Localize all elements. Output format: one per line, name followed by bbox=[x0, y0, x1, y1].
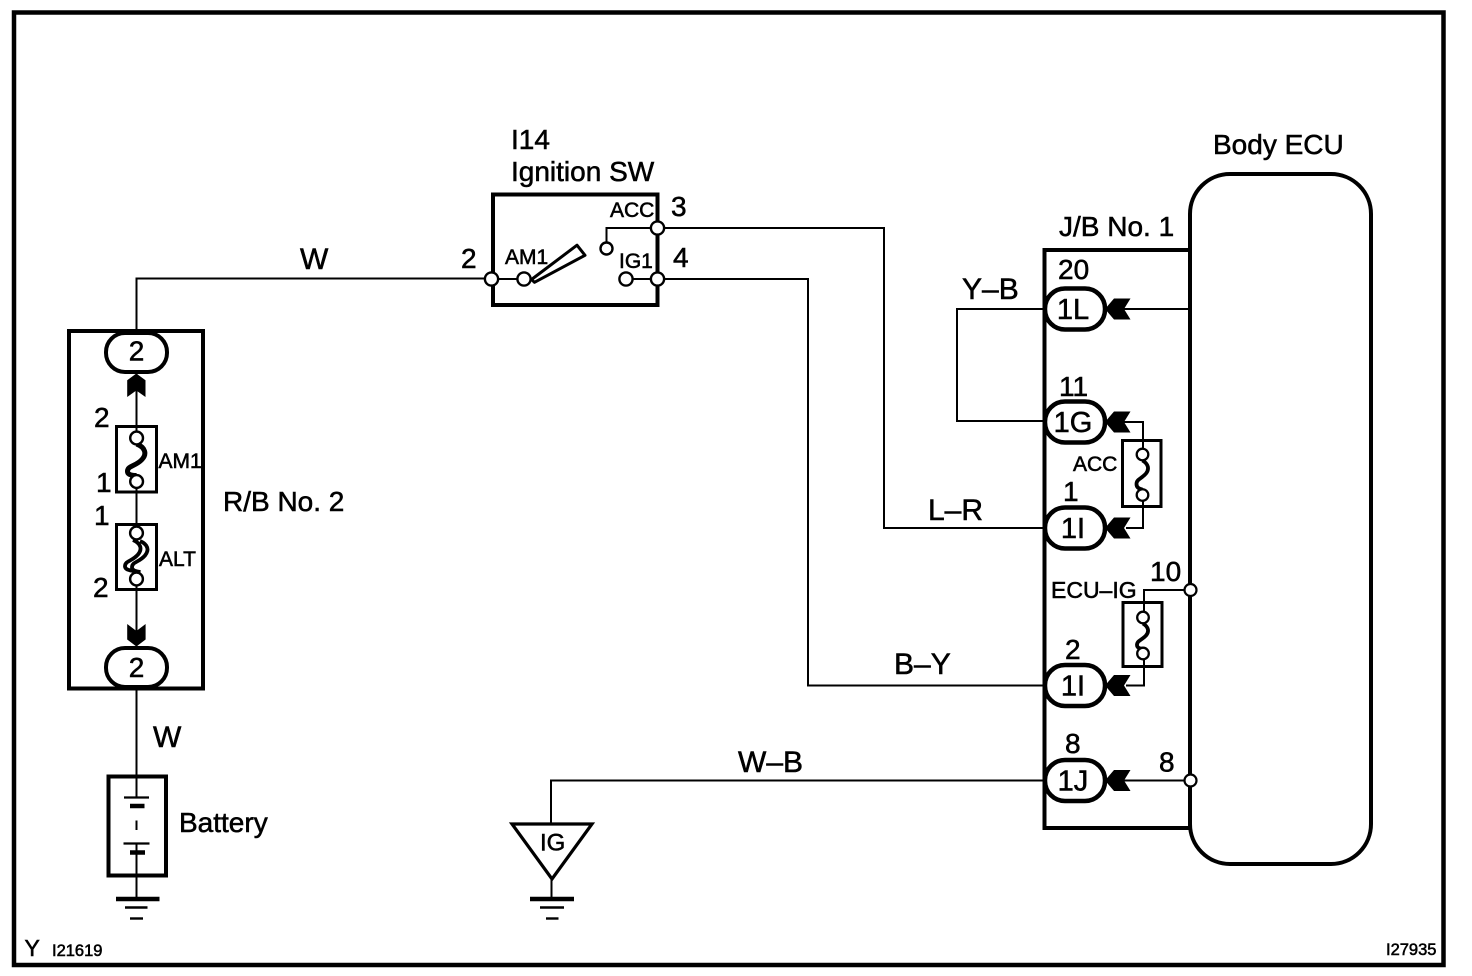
connector 1J bbox=[1045, 760, 1105, 801]
svg-text:3: 3 bbox=[671, 191, 687, 222]
contact AM1 circle bbox=[517, 272, 530, 285]
arrow (1I upper) bbox=[1105, 518, 1131, 539]
svg-text:I27935: I27935 bbox=[1386, 941, 1436, 959]
wire AM1 to IG1 contacts bbox=[492, 278, 658, 280]
connector oval 2 (RB top) bbox=[106, 333, 167, 372]
svg-text:IG1: IG1 bbox=[619, 250, 653, 273]
svg-text:Body ECU: Body ECU bbox=[1213, 129, 1344, 160]
svg-text:2: 2 bbox=[129, 652, 145, 683]
ground IG (triangle) bbox=[512, 824, 592, 919]
switch SW1 box (I14 Ignition SW) bbox=[493, 195, 658, 306]
svg-text:8: 8 bbox=[1065, 728, 1081, 759]
wire battery internal dash bbox=[136, 821, 138, 831]
svg-text:J/B No. 1: J/B No. 1 bbox=[1059, 211, 1174, 242]
svg-text:1: 1 bbox=[96, 467, 112, 498]
svg-text:11: 11 bbox=[1059, 371, 1088, 402]
connector 1I (lower) bbox=[1045, 665, 1105, 706]
arrow (1I lower) bbox=[1105, 675, 1131, 696]
arrow (1L) bbox=[1105, 299, 1131, 320]
battery BT1 bbox=[109, 777, 167, 876]
wire 1J to ECU node 8 bbox=[1122, 780, 1189, 782]
connector 1G bbox=[1045, 402, 1105, 443]
svg-text:ECU–IG: ECU–IG bbox=[1051, 577, 1137, 603]
wire B-Y (ignition pin 4 IG1 to J/B 1I lower) bbox=[664, 279, 1043, 686]
fuse ACC (J/B) bbox=[1123, 441, 1162, 507]
wire Y-B (1L to 1G loop) bbox=[957, 309, 1044, 421]
wire battery to ground bbox=[136, 843, 138, 897]
connector oval 2 (RB bottom) bbox=[106, 648, 167, 687]
pin circle 4 (switch box right) bbox=[651, 272, 664, 285]
label I14 Ignition SW bbox=[511, 124, 655, 187]
wire W-B (ground IG to 1J) bbox=[551, 781, 1043, 825]
svg-text:1L: 1L bbox=[1057, 294, 1089, 326]
wire 1G to fuse ACC bbox=[1122, 422, 1143, 450]
svg-text:1G: 1G bbox=[1054, 407, 1093, 439]
svg-text:I14: I14 bbox=[511, 124, 550, 155]
svg-text:1J: 1J bbox=[1058, 766, 1089, 798]
wire ECU node 10 to fuse ECU-IG bbox=[1144, 590, 1188, 613]
svg-text:I21619: I21619 bbox=[52, 942, 102, 960]
svg-text:W: W bbox=[300, 243, 329, 276]
svg-text:Battery: Battery bbox=[179, 807, 268, 838]
svg-text:ALT: ALT bbox=[159, 548, 196, 571]
pin circle 3 ACC (switch box right top) bbox=[651, 221, 664, 234]
svg-text:2: 2 bbox=[1065, 634, 1081, 665]
wire ACC contact elbow bbox=[607, 228, 652, 242]
wire fuse ACC to 1I bbox=[1126, 501, 1143, 529]
svg-text:W–B: W–B bbox=[738, 746, 803, 779]
contact IG1 circle bbox=[619, 272, 632, 285]
svg-text:IG: IG bbox=[540, 830, 565, 857]
fuse ECU-IG (J/B) bbox=[1123, 603, 1162, 667]
wire L-R (ignition pin 3 ACC to J/B 1I) bbox=[664, 228, 1043, 528]
svg-text:Ignition SW: Ignition SW bbox=[511, 156, 655, 187]
svg-text:2: 2 bbox=[129, 336, 145, 367]
svg-text:R/B No. 2: R/B No. 2 bbox=[223, 486, 344, 517]
fusible link ALT (RB) bbox=[117, 525, 157, 590]
wire RB bottom to battery bbox=[136, 688, 138, 798]
wire W (battery/RB to ignition switch pin 2) bbox=[137, 279, 492, 332]
node 10 (ECU edge) bbox=[1185, 584, 1197, 596]
arrow up (RB top) bbox=[127, 374, 145, 398]
svg-text:4: 4 bbox=[673, 242, 689, 273]
svg-text:ACC: ACC bbox=[610, 199, 654, 222]
svg-text:Y–B: Y–B bbox=[962, 273, 1019, 306]
svg-text:8: 8 bbox=[1159, 747, 1175, 778]
arrow down (RB bottom) bbox=[127, 624, 145, 647]
svg-text:2: 2 bbox=[93, 572, 109, 603]
contact pivot circle bbox=[601, 243, 613, 255]
node 8 (ECU edge) bbox=[1185, 775, 1197, 787]
relay block R/B No. 2 bbox=[69, 331, 203, 689]
ground (battery) bbox=[116, 899, 160, 919]
switch lever (ignition) bbox=[532, 245, 586, 282]
svg-text:1I: 1I bbox=[1061, 513, 1085, 545]
wire 1L to ECU bbox=[1122, 308, 1189, 310]
svg-text:B–Y: B–Y bbox=[894, 648, 951, 681]
svg-text:ACC: ACC bbox=[1073, 453, 1117, 476]
connector 1L bbox=[1045, 289, 1105, 330]
svg-text:Y: Y bbox=[25, 935, 40, 961]
svg-text:20: 20 bbox=[1058, 254, 1089, 285]
arrow (1G) bbox=[1105, 412, 1131, 433]
svg-text:2: 2 bbox=[94, 402, 110, 433]
pin circle 2 (switch box left) bbox=[485, 272, 498, 285]
svg-text:L–R: L–R bbox=[928, 494, 983, 527]
ECU U1 (Body ECU block) bbox=[1190, 174, 1371, 864]
wire fuse ECU-IG to 1I lower bbox=[1126, 659, 1144, 686]
wire RB internal (through fuses AM1 and ALT) bbox=[136, 372, 138, 648]
svg-text:AM1: AM1 bbox=[159, 450, 202, 473]
junction block J/B No. 1 bbox=[1045, 250, 1191, 828]
connector 1I (upper) bbox=[1045, 508, 1105, 549]
svg-text:1: 1 bbox=[1063, 476, 1079, 507]
svg-text:AM1: AM1 bbox=[505, 246, 548, 269]
svg-text:1I: 1I bbox=[1061, 671, 1085, 703]
svg-text:2: 2 bbox=[461, 243, 477, 274]
svg-text:10: 10 bbox=[1150, 556, 1181, 587]
svg-text:1: 1 bbox=[94, 500, 110, 531]
svg-text:W: W bbox=[153, 721, 182, 754]
arrow (1J) bbox=[1105, 770, 1131, 791]
fuse AM1 (RB) bbox=[117, 427, 157, 493]
